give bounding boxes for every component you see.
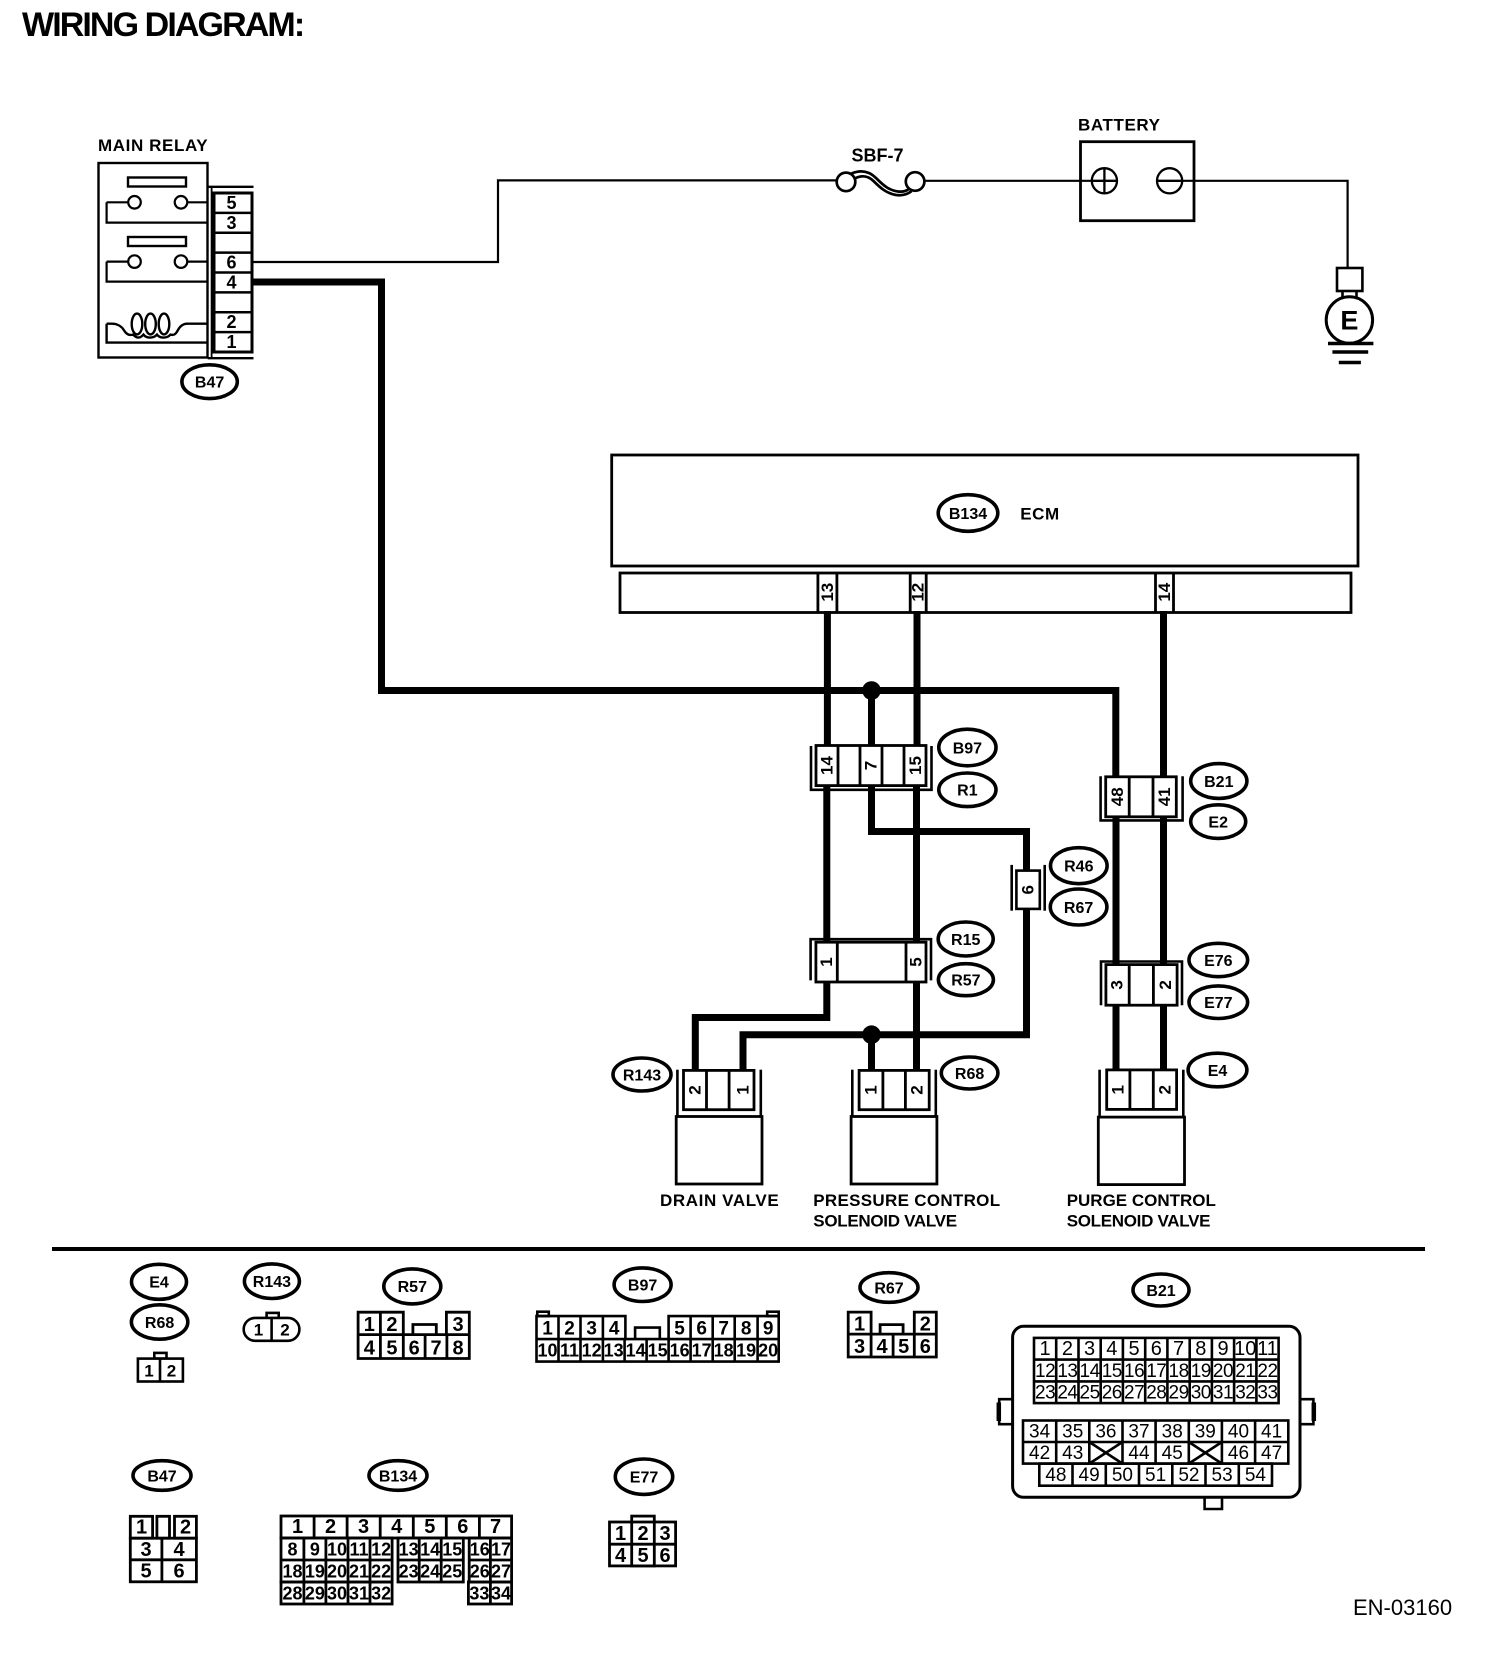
R46 ellipse label: [1051, 848, 1108, 884]
svg-text:25: 25: [1080, 1383, 1100, 1404]
svg-text:13: 13: [399, 1540, 419, 1560]
B21 bottom pin row 48-54: [1039, 1464, 1272, 1486]
svg-text:27: 27: [1124, 1383, 1144, 1404]
E77 ellipse label bottom: [615, 1459, 672, 1494]
svg-text:1: 1: [144, 1362, 153, 1381]
svg-text:28: 28: [1146, 1383, 1166, 1404]
connector B97/R1 shell: [811, 746, 932, 790]
battery minus terminal: [1157, 168, 1182, 193]
svg-text:5: 5: [424, 1516, 435, 1538]
svg-text:3: 3: [1084, 1338, 1095, 1360]
svg-text:54: 54: [1245, 1465, 1267, 1486]
svg-text:6: 6: [173, 1561, 184, 1583]
svg-text:6: 6: [920, 1336, 931, 1358]
svg-text:51: 51: [1145, 1465, 1166, 1486]
svg-text:26: 26: [1102, 1383, 1122, 1404]
connector E77 pinout: [610, 1516, 676, 1566]
svg-text:4: 4: [226, 273, 236, 293]
connector B134 pinout rows 8-27: [281, 1538, 512, 1582]
svg-text:2: 2: [1155, 1085, 1174, 1094]
connector R68 pinout: [138, 1353, 183, 1382]
svg-text:43: 43: [1062, 1443, 1083, 1464]
svg-text:7: 7: [718, 1319, 729, 1340]
svg-text:WIRING DIAGRAM:: WIRING DIAGRAM:: [22, 6, 303, 44]
B97 ellipse label bottom: [614, 1268, 671, 1302]
svg-text:E76: E76: [1204, 953, 1233, 970]
svg-text:12: 12: [371, 1540, 391, 1560]
wire B21-41 to E76-2: [1160, 817, 1167, 965]
svg-text:1: 1: [364, 1314, 375, 1336]
ground E terminal square: [1337, 268, 1362, 291]
R57 ellipse label: [938, 964, 993, 996]
connector R143 pinout: [244, 1313, 300, 1341]
svg-text:8: 8: [741, 1319, 752, 1340]
connector B21 pinout housing: [1013, 1326, 1300, 1497]
B21 middle pin block 34-47: [1023, 1421, 1288, 1464]
svg-text:17: 17: [491, 1540, 511, 1560]
junction node A: [862, 681, 881, 700]
B21 bottom tab: [1205, 1497, 1222, 1509]
svg-text:1: 1: [1040, 1338, 1051, 1360]
svg-text:R143: R143: [623, 1067, 661, 1084]
R67 ellipse label bottom: [860, 1273, 918, 1303]
wire connector 6 to R143-1: [743, 909, 1027, 1071]
svg-text:B134: B134: [379, 1468, 417, 1485]
svg-text:1: 1: [734, 1085, 753, 1094]
svg-text:27: 27: [491, 1562, 511, 1582]
B47 ellipse label bottom: [133, 1461, 191, 1491]
R67 ellipse label: [1050, 889, 1107, 925]
connector R15/R57 shell: [811, 939, 931, 980]
svg-text:16: 16: [470, 1540, 490, 1560]
svg-text:2: 2: [226, 312, 236, 332]
connector B47 pin cells 5 3 _ 6 4 _ 2 1: [214, 213, 252, 332]
svg-text:14: 14: [626, 1341, 646, 1361]
svg-text:21: 21: [349, 1562, 369, 1582]
pin numbers: [226, 193, 236, 352]
svg-text:16: 16: [1124, 1361, 1144, 1382]
ECM pin 12 cell: [910, 573, 926, 613]
svg-text:3: 3: [659, 1523, 670, 1545]
svg-text:3: 3: [854, 1336, 865, 1358]
svg-text:R57: R57: [951, 973, 980, 990]
svg-text:9: 9: [1217, 1338, 1228, 1360]
svg-text:12: 12: [582, 1341, 602, 1361]
connector E76/E77 body: [1106, 965, 1177, 1006]
connector E4 body on purge valve: [1107, 1070, 1177, 1110]
svg-text:11: 11: [560, 1341, 579, 1361]
svg-text:20: 20: [758, 1341, 778, 1361]
svg-text:18: 18: [1169, 1361, 1189, 1382]
svg-text:12: 12: [1035, 1361, 1055, 1382]
svg-text:MAIN RELAY: MAIN RELAY: [98, 136, 208, 155]
svg-text:2: 2: [686, 1085, 705, 1094]
svg-text:4: 4: [364, 1338, 376, 1360]
svg-text:B47: B47: [147, 1468, 176, 1485]
svg-text:B21: B21: [1204, 774, 1233, 791]
svg-text:13: 13: [1057, 1361, 1077, 1382]
svg-text:3: 3: [358, 1516, 369, 1538]
svg-text:19: 19: [305, 1562, 325, 1582]
svg-text:39: 39: [1195, 1422, 1216, 1443]
svg-text:SBF-7: SBF-7: [852, 146, 904, 166]
svg-text:15: 15: [906, 756, 925, 775]
svg-text:14: 14: [1155, 582, 1174, 601]
B21 left tab: [999, 1399, 1012, 1424]
svg-text:BATTERY: BATTERY: [1078, 116, 1161, 135]
E76 ellipse label: [1189, 943, 1248, 976]
R57 ellipse label bottom: [384, 1269, 441, 1304]
svg-text:B21: B21: [1146, 1283, 1175, 1300]
svg-text:5: 5: [674, 1319, 685, 1340]
B21 right tab: [1300, 1399, 1313, 1424]
svg-text:R67: R67: [1064, 900, 1093, 917]
svg-text:23: 23: [1035, 1383, 1055, 1404]
svg-text:21: 21: [1235, 1361, 1255, 1382]
svg-text:32: 32: [1235, 1383, 1255, 1404]
svg-text:E77: E77: [630, 1470, 659, 1487]
connector E76/E77 shell: [1101, 962, 1182, 1006]
svg-text:7: 7: [430, 1338, 441, 1360]
svg-text:8: 8: [1195, 1338, 1206, 1360]
svg-text:40: 40: [1228, 1422, 1249, 1443]
svg-text:1: 1: [615, 1523, 626, 1545]
svg-text:R143: R143: [253, 1274, 291, 1291]
E4 ellipse label bottom: [132, 1264, 187, 1299]
B47 ellipse label: [182, 365, 237, 399]
svg-text:31: 31: [1213, 1383, 1233, 1404]
svg-text:16: 16: [670, 1341, 690, 1361]
wire fuse to battery: [924, 180, 1092, 182]
svg-text:53: 53: [1212, 1465, 1233, 1486]
svg-text:18: 18: [714, 1341, 734, 1361]
R143 ellipse label bottom: [244, 1264, 299, 1299]
svg-text:5: 5: [898, 1336, 909, 1358]
svg-text:36: 36: [1095, 1422, 1116, 1443]
junction node B: [862, 1025, 881, 1044]
svg-text:9: 9: [763, 1319, 774, 1340]
wire B97-7 to connector 6: [872, 786, 1027, 871]
svg-text:10: 10: [537, 1341, 557, 1361]
svg-text:1: 1: [1109, 1085, 1128, 1094]
svg-text:4: 4: [173, 1539, 185, 1561]
svg-text:26: 26: [470, 1562, 490, 1582]
wire junction A to B97-7: [868, 691, 875, 747]
relay coil: [107, 314, 208, 343]
connector R15/R57 body: [816, 942, 926, 982]
svg-text:R46: R46: [1064, 859, 1093, 876]
connector B21/E2 body: [1106, 777, 1177, 817]
svg-text:49: 49: [1079, 1465, 1100, 1486]
svg-text:2: 2: [180, 1517, 191, 1539]
ground symbol: [1328, 344, 1373, 363]
svg-text:11: 11: [349, 1540, 368, 1560]
svg-text:47: 47: [1261, 1443, 1282, 1464]
connector 6 R46/R67 body: [1016, 871, 1039, 909]
drain valve assembly: [677, 1070, 760, 1117]
svg-text:12: 12: [909, 583, 928, 602]
svg-text:48: 48: [1108, 787, 1127, 806]
purge control solenoid valve assembly: [1100, 1070, 1184, 1117]
wire B97-15 to R15-5: [913, 786, 920, 943]
svg-text:14: 14: [1080, 1361, 1101, 1382]
svg-text:6: 6: [409, 1338, 420, 1360]
connector B134 pinout row 1-7: [281, 1516, 512, 1538]
svg-text:33: 33: [469, 1584, 489, 1604]
B97 ellipse label: [939, 729, 996, 766]
svg-text:SOLENOID VALVE: SOLENOID VALVE: [813, 1212, 956, 1231]
svg-text:30: 30: [1191, 1383, 1211, 1404]
connector R68 body on pressure valve: [859, 1070, 929, 1109]
R68 ellipse label: [941, 1057, 998, 1089]
svg-text:B97: B97: [953, 740, 982, 757]
svg-text:38: 38: [1162, 1422, 1183, 1443]
wire E76-3 to E4-1: [1113, 1005, 1120, 1070]
svg-text:50: 50: [1112, 1465, 1133, 1486]
wire ECM12 to B97-15: [914, 611, 921, 746]
svg-text:6: 6: [1019, 885, 1038, 894]
E2 ellipse label: [1191, 805, 1246, 839]
B21 ellipse label bottom: [1133, 1274, 1189, 1306]
B134 ellipse label: [938, 495, 998, 532]
wire B97-14 to R15-1: [823, 786, 830, 943]
svg-text:3: 3: [140, 1539, 151, 1561]
svg-text:13: 13: [818, 583, 837, 602]
svg-text:1: 1: [254, 1321, 263, 1340]
svg-text:R15: R15: [951, 932, 980, 949]
ECM U1 box: [612, 455, 1358, 566]
svg-text:46: 46: [1228, 1443, 1249, 1464]
svg-text:42: 42: [1029, 1443, 1050, 1464]
svg-text:29: 29: [305, 1584, 325, 1604]
svg-text:1: 1: [854, 1314, 865, 1336]
wire relay pin6 to fuse: [254, 180, 837, 262]
connector B97/R1 body: [816, 746, 926, 786]
wire R15-5 to R68-2: [913, 982, 920, 1070]
svg-text:18: 18: [282, 1562, 302, 1582]
svg-text:19: 19: [736, 1341, 756, 1361]
svg-text:52: 52: [1178, 1465, 1199, 1486]
svg-text:R68: R68: [955, 1066, 984, 1083]
svg-text:25: 25: [442, 1562, 462, 1582]
wire main power relay pin4 to B21-48: [254, 282, 1116, 777]
svg-text:31: 31: [349, 1584, 369, 1604]
svg-text:5: 5: [1129, 1338, 1140, 1360]
svg-text:2: 2: [564, 1319, 575, 1340]
svg-text:17: 17: [692, 1341, 712, 1361]
connector 6 R46/R67 shell: [1012, 865, 1045, 911]
svg-text:6: 6: [457, 1516, 468, 1538]
svg-text:PURGE CONTROL: PURGE CONTROL: [1067, 1191, 1216, 1210]
svg-text:41: 41: [1155, 787, 1174, 806]
svg-text:15: 15: [442, 1540, 462, 1560]
svg-text:6: 6: [659, 1545, 670, 1567]
B21 ellipse label: [1191, 764, 1247, 799]
wire B21-48 to E76-3: [1113, 817, 1120, 965]
svg-text:7: 7: [862, 761, 881, 770]
battery plus terminal: [1092, 168, 1117, 193]
svg-text:1: 1: [542, 1319, 553, 1340]
connector B97 pinout: [537, 1312, 779, 1362]
svg-text:R57: R57: [398, 1279, 427, 1296]
svg-text:B134: B134: [949, 506, 987, 523]
svg-text:15: 15: [1102, 1361, 1122, 1382]
svg-text:1: 1: [862, 1085, 881, 1094]
relay contact 1: [107, 196, 208, 223]
svg-text:R67: R67: [874, 1280, 903, 1297]
svg-text:14: 14: [818, 756, 837, 775]
svg-text:2: 2: [1062, 1338, 1073, 1360]
svg-text:10: 10: [327, 1540, 347, 1560]
svg-text:1: 1: [226, 332, 236, 352]
R15 ellipse label: [938, 922, 993, 956]
svg-text:6: 6: [226, 253, 236, 273]
R143 ellipse label: [613, 1058, 671, 1091]
svg-text:2: 2: [280, 1321, 289, 1340]
wire E76-2 to E4-2: [1160, 1005, 1167, 1070]
svg-text:11: 11: [1257, 1338, 1278, 1360]
ECM pin 14 cell: [1156, 573, 1174, 613]
svg-text:29: 29: [1169, 1383, 1189, 1404]
svg-text:2: 2: [908, 1085, 927, 1094]
svg-text:R1: R1: [957, 783, 978, 800]
svg-text:5: 5: [140, 1561, 151, 1583]
svg-text:2: 2: [167, 1362, 176, 1381]
wire junction B to R68-1: [868, 1035, 875, 1071]
B134 ellipse label bottom: [369, 1461, 427, 1491]
connector R67 pinout: [848, 1312, 936, 1357]
svg-text:SOLENOID VALVE: SOLENOID VALVE: [1067, 1212, 1210, 1231]
connector B134 pinout row 28-34: [281, 1582, 512, 1604]
pressure control solenoid valve assembly: [852, 1070, 936, 1117]
svg-text:22: 22: [1257, 1361, 1277, 1382]
svg-text:5: 5: [907, 957, 926, 966]
svg-text:35: 35: [1062, 1422, 1083, 1443]
main relay K1 body: [99, 163, 208, 358]
svg-text:2: 2: [386, 1314, 397, 1336]
svg-text:4: 4: [609, 1319, 620, 1340]
svg-text:17: 17: [1146, 1361, 1166, 1382]
svg-text:15: 15: [648, 1341, 668, 1361]
svg-text:2: 2: [325, 1516, 336, 1538]
relay contact 2: [107, 255, 208, 281]
svg-text:32: 32: [371, 1584, 391, 1604]
svg-text:6: 6: [696, 1319, 707, 1340]
svg-text:2: 2: [920, 1314, 931, 1336]
battery: [1081, 142, 1195, 221]
B21 top pin block 1-33: [1034, 1338, 1279, 1403]
svg-text:41: 41: [1261, 1422, 1282, 1443]
svg-text:DRAIN VALVE: DRAIN VALVE: [660, 1191, 779, 1210]
svg-text:20: 20: [327, 1562, 347, 1582]
svg-text:3: 3: [226, 213, 236, 233]
wire ECM14 to B21-41: [1160, 611, 1167, 777]
svg-text:PRESSURE CONTROL: PRESSURE CONTROL: [813, 1191, 1000, 1210]
svg-text:3: 3: [1108, 980, 1127, 989]
svg-text:4: 4: [1106, 1338, 1117, 1360]
svg-text:24: 24: [1057, 1383, 1078, 1404]
svg-text:45: 45: [1162, 1443, 1183, 1464]
E77 ellipse label: [1189, 986, 1248, 1019]
R68 ellipse label bottom: [131, 1305, 187, 1339]
svg-text:10: 10: [1234, 1338, 1256, 1360]
svg-text:4: 4: [615, 1545, 627, 1567]
svg-text:22: 22: [371, 1562, 391, 1582]
svg-text:5: 5: [637, 1545, 648, 1567]
wire R15-1 to R143-2: [695, 982, 827, 1070]
svg-text:5: 5: [226, 193, 236, 213]
svg-text:E4: E4: [149, 1275, 169, 1292]
svg-text:6: 6: [1151, 1338, 1162, 1360]
svg-text:E4: E4: [1208, 1063, 1228, 1080]
connector R143 body on drain valve: [684, 1070, 755, 1109]
svg-text:EN-03160: EN-03160: [1353, 1595, 1452, 1620]
svg-text:24: 24: [420, 1562, 440, 1582]
svg-text:2: 2: [1156, 980, 1175, 989]
svg-text:34: 34: [491, 1584, 511, 1604]
svg-text:28: 28: [282, 1584, 302, 1604]
svg-text:1: 1: [136, 1517, 147, 1539]
svg-text:14: 14: [420, 1540, 440, 1560]
svg-text:4: 4: [391, 1516, 403, 1538]
svg-text:E: E: [1340, 306, 1358, 336]
connector R57 pinout: [358, 1312, 469, 1358]
svg-text:3: 3: [452, 1314, 463, 1336]
svg-text:ECM: ECM: [1020, 505, 1060, 524]
svg-text:13: 13: [604, 1341, 624, 1361]
svg-text:33: 33: [1257, 1383, 1277, 1404]
svg-text:8: 8: [453, 1338, 464, 1360]
E4 ellipse label: [1188, 1053, 1247, 1087]
svg-text:48: 48: [1045, 1465, 1066, 1486]
wire ECM13 to B97-14: [824, 611, 831, 746]
svg-text:5: 5: [386, 1338, 397, 1360]
R1 ellipse label: [939, 773, 996, 807]
ground E node: [1326, 291, 1372, 343]
svg-text:44: 44: [1128, 1443, 1150, 1464]
wire battery to ground E: [1182, 181, 1347, 268]
svg-text:2: 2: [637, 1523, 648, 1545]
svg-text:1: 1: [292, 1516, 303, 1538]
fuse SBF-7: [837, 171, 925, 195]
svg-text:20: 20: [1213, 1361, 1233, 1382]
svg-text:R68: R68: [145, 1315, 174, 1332]
svg-text:37: 37: [1128, 1422, 1149, 1443]
svg-text:23: 23: [399, 1562, 419, 1582]
connector B47 shell on relay: [208, 187, 254, 358]
svg-text:B97: B97: [628, 1278, 657, 1295]
connector B21/E2 shell: [1101, 776, 1183, 820]
svg-text:19: 19: [1191, 1361, 1211, 1382]
ECM pin 13 cell: [818, 573, 837, 613]
svg-text:3: 3: [586, 1319, 597, 1340]
svg-text:E77: E77: [1204, 995, 1233, 1012]
separator line: [52, 1247, 1425, 1251]
svg-text:E2: E2: [1208, 814, 1228, 831]
ECM connector strip: [620, 573, 1351, 613]
svg-text:7: 7: [490, 1516, 501, 1538]
connector B47 pinout: [130, 1516, 196, 1582]
svg-text:7: 7: [1173, 1338, 1184, 1360]
svg-text:34: 34: [1029, 1422, 1051, 1443]
svg-text:30: 30: [327, 1584, 347, 1604]
svg-text:B47: B47: [195, 375, 224, 392]
svg-text:8: 8: [287, 1540, 297, 1560]
svg-text:9: 9: [310, 1540, 320, 1560]
svg-text:1: 1: [817, 957, 836, 966]
svg-text:4: 4: [877, 1336, 889, 1358]
